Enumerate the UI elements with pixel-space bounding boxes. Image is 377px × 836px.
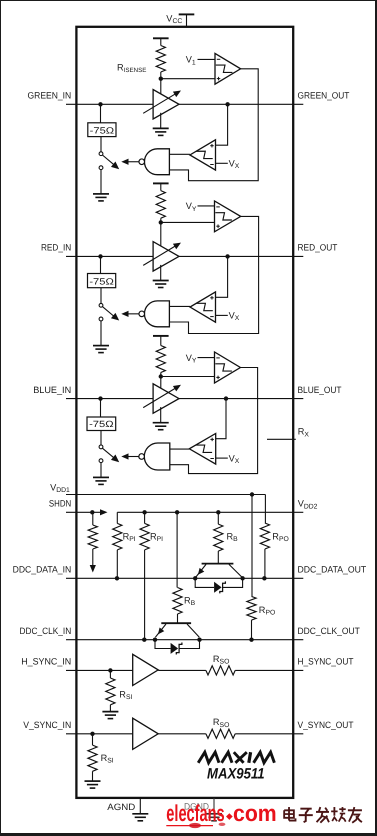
- wire blue sense junction into attenuator: [160, 377, 162, 389]
- comparator green clamp (hysteresis): [215, 53, 241, 84]
- node DDC_DATA RPI junction: [115, 576, 119, 580]
- resistor RSI (H_SYNC): [109, 670, 111, 678]
- svg-text:VDD2: VDD2: [298, 499, 318, 511]
- wire DDC_CLK line: [66, 639, 303, 641]
- switch blue blade: [102, 448, 114, 458]
- ground green attenuator: [160, 113, 162, 129]
- wire V_SYNC_OUT: [235, 733, 303, 735]
- svg-text:AGND: AGND: [107, 802, 135, 812]
- transistor Q1 (DDC_DATA level shifter): [202, 563, 234, 565]
- svg-text:RSI: RSI: [119, 689, 132, 701]
- comparator green VX (hysteresis): [190, 140, 216, 170]
- resistor RSI (V_SYNC): [92, 734, 94, 745]
- wire VDD1 rail: [66, 494, 265, 496]
- ground red attenuator: [160, 265, 162, 281]
- resistor RPO (DDC_DATA_OUT pull-up): [264, 495, 266, 524]
- node RPI2 top junction: [142, 510, 146, 514]
- arrow SHDN internal: [100, 509, 108, 515]
- wire red VX comparator - input: [216, 314, 228, 316]
- svg-text:-75Ω: -75Ω: [89, 276, 114, 286]
- wire nand output control arrow blue: [129, 456, 140, 458]
- svg-text:VX: VX: [229, 453, 240, 465]
- svg-text:RSI: RSI: [101, 753, 114, 765]
- ground AGND: [139, 798, 141, 814]
- wire H_SYNC_OUT: [235, 669, 303, 671]
- svg-text:DDC_CLK_OUT: DDC_CLK_OUT: [298, 626, 361, 636]
- variable attenuator blue: [153, 384, 179, 414]
- svg-text:H_SYNC_IN: H_SYNC_IN: [21, 657, 71, 667]
- wire DDC_DATA line: [66, 577, 303, 579]
- svg-text:RISENSE: RISENSE: [117, 63, 146, 75]
- wire SHDN input: [66, 511, 100, 513]
- svg-text:RPI: RPI: [150, 532, 163, 544]
- svg-text:elecfans: elecfans: [166, 800, 224, 826]
- node DDC_DATA collector junction: [240, 576, 244, 580]
- svg-text:DDC_DATA_OUT: DDC_DATA_OUT: [298, 565, 367, 575]
- resistor blue sense (to V+): [153, 335, 169, 337]
- nand gate red clamp control: [144, 301, 169, 327]
- svg-text:RPO: RPO: [272, 532, 288, 544]
- svg-text:MAX9511: MAX9511: [207, 766, 265, 783]
- svg-text:RX: RX: [298, 427, 310, 439]
- node DDC_CLK RPI junction: [142, 638, 146, 642]
- resistor -75ohm box green: [88, 123, 116, 137]
- wire red sense junction into attenuator: [160, 222, 162, 246]
- ground V_SYNC RSI: [85, 780, 101, 782]
- node DDC_DATA RPO junction: [262, 576, 266, 580]
- resistor -75ohm box red: [88, 274, 116, 288]
- resistor RPO (DDC_CLK_OUT pull-up): [251, 495, 253, 597]
- switch green blade: [102, 155, 114, 165]
- wire blue comparator output feedback: [170, 368, 258, 474]
- node RB1 top junction: [216, 510, 220, 514]
- wire V_SYNC buffer to RSO: [158, 733, 206, 735]
- ground green switch: [100, 170, 102, 194]
- node green input junction: [98, 102, 102, 106]
- node DDC_DATA emitter junction: [193, 576, 197, 580]
- node DDC_CLK collector junction: [197, 638, 201, 642]
- svg-text:RB: RB: [184, 595, 196, 607]
- wire red input junction to -75ohm box: [100, 256, 102, 273]
- wire blue VX comparator - input: [216, 457, 228, 459]
- transistor Q2 (DDC_CLK level shifter): [161, 622, 191, 624]
- ground H_SYNC RSI: [102, 711, 118, 713]
- node red input junction: [98, 254, 102, 258]
- power terminal VCC: [186, 14, 188, 26]
- node blue input junction: [98, 396, 102, 400]
- wire nand output control arrow red: [129, 313, 140, 315]
- node VDD1 rail to RPO2 junction: [250, 492, 254, 496]
- wire blue sense junction to comparator + input: [161, 376, 215, 378]
- wire nand top input from VX comparator green: [169, 153, 190, 155]
- switch green contact 2: [99, 166, 103, 170]
- diode D1 (schottky, DDC_DATA): [195, 578, 214, 587]
- svg-text:GREEN_IN: GREEN_IN: [28, 91, 72, 101]
- wire blue main signal line (BLUE_IN to BLUE_OUT): [66, 398, 303, 400]
- wire -75ohm box to switch green: [100, 137, 102, 152]
- comparator blue VX (hysteresis): [189, 434, 215, 465]
- wire VDD2 line: [117, 511, 303, 513]
- switch blue contact 2: [99, 459, 103, 463]
- svg-text:H_SYNC_OUT: H_SYNC_OUT: [298, 657, 354, 667]
- svg-text:VY: VY: [186, 201, 197, 213]
- node V_SYNC RSI junction: [90, 732, 94, 736]
- switch red contact 2: [99, 317, 103, 321]
- svg-text:-75Ω: -75Ω: [89, 419, 114, 429]
- wire V_SYNC_IN: [66, 733, 133, 735]
- switch red contact 1: [99, 303, 103, 307]
- buffer H_SYNC: [133, 654, 159, 685]
- wire VY to comparator - input: [198, 205, 215, 207]
- wire blue input junction to -75ohm box: [100, 399, 102, 417]
- svg-text:RB: RB: [227, 532, 239, 544]
- svg-text:V_SYNC_IN: V_SYNC_IN: [23, 720, 71, 730]
- svg-text:GREEN_OUT: GREEN_OUT: [298, 91, 350, 101]
- nand gate blue clamp control: [144, 443, 170, 470]
- svg-text:com: com: [233, 800, 277, 826]
- wire red VX comparator + input from main line: [216, 256, 228, 297]
- node red comparator tap junction: [225, 254, 229, 258]
- comparator blue clamp (hysteresis): [215, 352, 241, 383]
- wire green sense junction into attenuator: [160, 79, 162, 94]
- svg-text:DDC_CLK_IN: DDC_CLK_IN: [20, 626, 72, 636]
- switch red blade: [102, 307, 114, 317]
- node blue comparator tap junction: [224, 396, 228, 400]
- variable attenuator red: [153, 242, 179, 272]
- diode D2 (schottky, DDC_CLK): [155, 640, 171, 649]
- svg-text:VDD1: VDD1: [50, 482, 70, 494]
- ground blue switch: [100, 463, 102, 478]
- wire red main signal line (RED_IN to RED_OUT): [66, 255, 303, 257]
- node SHDN junction: [90, 510, 94, 514]
- wire green VX comparator - input: [216, 162, 228, 164]
- svg-text:RPO: RPO: [259, 605, 275, 617]
- variable attenuator green: [153, 90, 179, 120]
- wire nand top input from VX comparator blue: [170, 448, 190, 450]
- switch green contact 1: [99, 152, 103, 156]
- svg-text:DDC_DATA_IN: DDC_DATA_IN: [13, 565, 72, 575]
- wire green main signal line (GREEN_IN to GREEN_OUT): [66, 103, 303, 105]
- svg-text:BLUE_OUT: BLUE_OUT: [298, 385, 342, 395]
- svg-text:-75Ω: -75Ω: [90, 125, 115, 135]
- svg-text:RPI: RPI: [123, 532, 136, 544]
- switch blue contact 1: [99, 445, 103, 449]
- node H_SYNC RSI junction: [108, 668, 112, 672]
- wire nand output control arrow green: [129, 161, 140, 163]
- wire green sense junction to comparator + input: [161, 78, 215, 80]
- node red sense resistor junction: [159, 220, 163, 224]
- watermark chinese text 电子发烧友: [284, 807, 362, 823]
- wire VY to comparator - input: [198, 357, 215, 359]
- ground DGND: [213, 798, 215, 814]
- svg-text:V1: V1: [186, 55, 196, 67]
- node RB2 top junction: [175, 510, 179, 514]
- wire V1 to comparator - input: [198, 58, 216, 60]
- node DDC_CLK RPO junction: [249, 638, 253, 642]
- resistor SHDN pulldown: [92, 512, 94, 525]
- wire H_SYNC buffer to RSO: [158, 669, 206, 671]
- wire H_SYNC_IN: [66, 669, 133, 671]
- resistor red sense (to V+): [153, 182, 169, 184]
- svg-text:RED_IN: RED_IN: [41, 243, 71, 253]
- MAXIM logo: [198, 752, 219, 763]
- svg-text:RSO: RSO: [213, 717, 229, 729]
- node DDC_CLK emitter junction: [153, 638, 157, 642]
- resistor RSO (V_SYNC): [206, 729, 235, 738]
- wire -75ohm box to switch blue: [100, 431, 102, 446]
- wire red sense junction to comparator + input: [161, 221, 215, 223]
- resistor green sense (to V+): [153, 37, 169, 39]
- node green sense resistor junction: [159, 77, 163, 81]
- resistor -75ohm box blue: [87, 417, 116, 431]
- wire green VX comparator + input from main line: [216, 104, 228, 145]
- svg-text:V_SYNC_OUT: V_SYNC_OUT: [298, 720, 354, 730]
- wire red comparator output feedback: [169, 216, 258, 333]
- resistor RSO (H_SYNC): [206, 666, 235, 675]
- svg-text:VX: VX: [229, 159, 240, 171]
- comparator red VX (hysteresis): [190, 292, 216, 322]
- ground red switch: [100, 321, 102, 346]
- resistor RB (DDC_CLK transistor base): [176, 512, 178, 587]
- svg-text:VX: VX: [229, 311, 240, 323]
- IC outline box (MAX9511): [76, 27, 293, 798]
- resistor RPI (DDC_DATA pull-up): [116, 512, 118, 523]
- node blue sense resistor junction: [159, 374, 163, 378]
- ground blue attenuator: [160, 407, 162, 423]
- wire -75ohm box to switch red: [100, 288, 102, 304]
- wire RX internal stub: [267, 438, 296, 440]
- wire nand top input from VX comparator red: [169, 305, 190, 307]
- svg-text:RED_OUT: RED_OUT: [298, 243, 338, 253]
- svg-text:VY: VY: [186, 353, 197, 365]
- comparator red clamp (hysteresis): [215, 201, 241, 232]
- wire green input junction to -75ohm box: [100, 104, 102, 123]
- svg-text:BLUE_IN: BLUE_IN: [33, 385, 71, 395]
- resistor RPI (DDC_CLK pull-up): [144, 512, 146, 523]
- node green comparator tap junction: [225, 102, 229, 106]
- wire blue VX comparator + input from main line: [216, 399, 226, 439]
- svg-text:RSO: RSO: [213, 654, 229, 666]
- nand gate green clamp control: [144, 149, 169, 175]
- svg-text:SHDN: SHDN: [49, 499, 71, 509]
- resistor RB (DDC_DATA transistor base): [217, 512, 219, 524]
- buffer V_SYNC: [133, 718, 159, 749]
- wire green comparator output feedback: [169, 69, 258, 181]
- arrow SHDN pulldown down: [90, 565, 96, 573]
